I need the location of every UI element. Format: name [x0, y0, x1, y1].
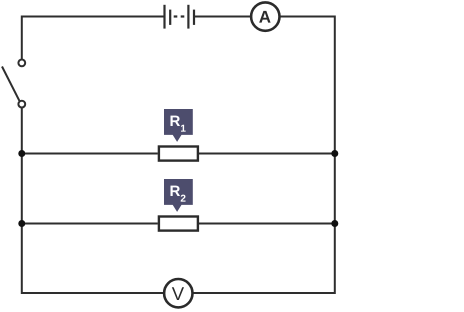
svg-text:A: A: [259, 8, 271, 27]
svg-text:V: V: [172, 283, 185, 304]
